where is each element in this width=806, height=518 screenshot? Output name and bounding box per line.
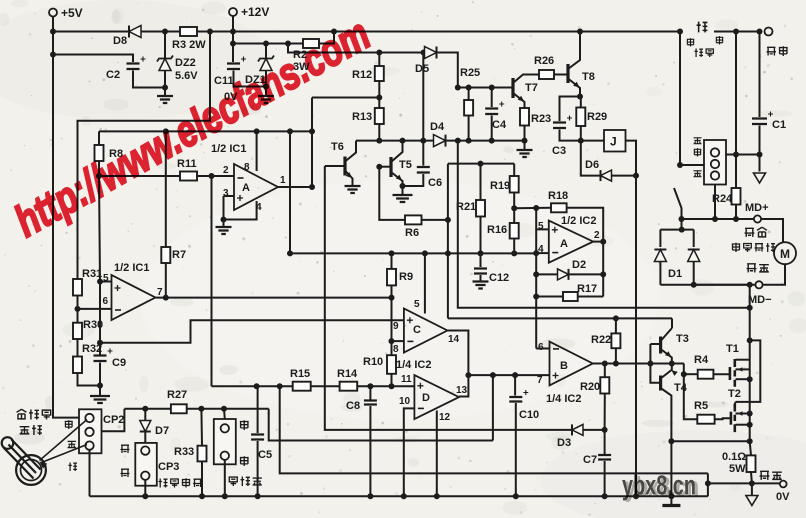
zener DZ1 bbox=[265, 44, 267, 59]
capacitor C4 bbox=[491, 88, 493, 108]
wire pin8 bbox=[256, 131, 258, 171]
wire R5 drop bbox=[684, 374, 698, 419]
wire x636 long column bbox=[635, 176, 637, 497]
svg-text:C1: C1 bbox=[772, 119, 786, 131]
wire 0V line bbox=[708, 482, 780, 484]
wire emitter to C3 bbox=[560, 97, 581, 122]
label cuhong bbox=[767, 47, 776, 55]
ground DZ1 bbox=[258, 96, 274, 103]
resistor R29 bbox=[580, 97, 582, 108]
resistor R2 bbox=[303, 39, 319, 48]
diode D6 bbox=[601, 170, 612, 181]
node bus x290 bbox=[287, 250, 293, 256]
wire R14 to pin11 bbox=[357, 385, 414, 387]
node pin2 out bbox=[600, 239, 606, 245]
svg-text:5W: 5W bbox=[729, 463, 746, 475]
resistor R14 bbox=[340, 382, 358, 391]
node R33 top bbox=[198, 406, 204, 412]
node pin6 bbox=[75, 306, 81, 312]
node DZ2 bottom bbox=[162, 85, 168, 91]
resistor R9 bbox=[387, 269, 396, 286]
svg-text:13: 13 bbox=[456, 385, 468, 396]
node bus R21 bbox=[478, 250, 484, 256]
node pin5 bbox=[97, 279, 103, 285]
label youshuadianji bbox=[732, 243, 740, 252]
node rail T8 bbox=[577, 29, 583, 35]
wire pin5 C bbox=[424, 253, 426, 313]
ground IC1A bbox=[223, 220, 225, 228]
diode D4 bbox=[434, 135, 446, 147]
resistor R22 bbox=[615, 318, 617, 333]
svg-text:1/4 IC2: 1/4 IC2 bbox=[396, 359, 431, 371]
wire D4 right bbox=[446, 140, 526, 142]
ground T4 chain bbox=[662, 504, 680, 507]
wire shunt bottom bbox=[750, 472, 753, 483]
node DZ1 bottom bbox=[263, 84, 269, 90]
svg-text:9: 9 bbox=[393, 321, 399, 332]
node x233 y43 bbox=[230, 41, 236, 47]
svg-text:J: J bbox=[610, 135, 617, 149]
wire C5 column bbox=[257, 386, 259, 433]
node R17 left bbox=[533, 294, 539, 300]
node C1 top bbox=[757, 29, 763, 35]
svg-text:R14: R14 bbox=[337, 368, 358, 380]
op-amp IC1 B bbox=[112, 275, 156, 320]
diode D2 bbox=[558, 269, 569, 280]
node rail end bbox=[677, 29, 683, 35]
wire to connector bbox=[680, 164, 704, 166]
svg-text:R26: R26 bbox=[534, 55, 554, 67]
node R21 top bbox=[478, 161, 484, 167]
wire fb x493 bbox=[492, 375, 494, 440]
wire C2 bottom bbox=[133, 71, 165, 88]
handlebar sketch bbox=[16, 455, 46, 485]
resistor R16 bbox=[510, 223, 519, 239]
resistor R15 bbox=[293, 382, 311, 391]
wire R32 bottom bbox=[78, 373, 101, 386]
wire C9 bottom bbox=[99, 363, 101, 397]
wire T6 base column bbox=[325, 166, 605, 430]
wire R20 bottom bbox=[604, 394, 606, 430]
wire y473 bus bbox=[280, 386, 708, 473]
node 0V bbox=[749, 480, 755, 486]
svg-text:CP3: CP3 bbox=[158, 461, 179, 473]
wire D1 bottom bbox=[660, 284, 749, 286]
terminal key red bbox=[765, 28, 773, 36]
pointer line 1 bbox=[40, 420, 88, 461]
node x312 output bbox=[309, 184, 315, 190]
wire R18 right bbox=[567, 208, 604, 297]
wire MD+ to motor bbox=[761, 219, 783, 243]
svg-text:12: 12 bbox=[439, 412, 451, 423]
wire key column bbox=[679, 32, 681, 166]
capacitor C11 bbox=[232, 44, 234, 63]
wire D1 left leg bbox=[659, 230, 661, 285]
capacitor C10 bbox=[514, 375, 516, 395]
svg-text:R29: R29 bbox=[587, 111, 607, 123]
label hei1 bbox=[694, 138, 702, 144]
node x736 y154 bbox=[733, 152, 739, 158]
svg-text:R27: R27 bbox=[167, 389, 187, 401]
transistor T4 bbox=[659, 376, 662, 391]
wire pin4 bbox=[224, 201, 257, 220]
svg-text:A: A bbox=[242, 182, 250, 194]
wire R15-R14 bbox=[311, 385, 340, 387]
wire CP3 bottom bbox=[144, 480, 146, 496]
svg-text:R20: R20 bbox=[580, 381, 600, 393]
svg-text:CP2: CP2 bbox=[103, 414, 124, 426]
wire D8 to node bbox=[141, 31, 180, 33]
wire pin3 bbox=[224, 195, 235, 197]
svg-text:M: M bbox=[780, 247, 790, 261]
connector key 3pin bbox=[704, 140, 726, 185]
resistor R18 bbox=[551, 203, 567, 212]
label huang1 bbox=[121, 445, 130, 453]
node C8 bus bbox=[367, 493, 373, 499]
node R25 bottom bbox=[466, 138, 472, 144]
node C1 gnd bbox=[757, 152, 763, 158]
wire drop to D5 line bbox=[288, 44, 424, 53]
wire box top y163 bbox=[448, 163, 514, 165]
svg-text:R13: R13 bbox=[352, 111, 372, 123]
wire fb column x536 bbox=[535, 208, 537, 349]
wire R26 to T8 bbox=[554, 74, 568, 76]
svg-text:T6: T6 bbox=[331, 141, 344, 153]
node R3/DZ2 bbox=[162, 29, 168, 35]
label hei2 bbox=[694, 171, 702, 177]
wire connector to C1 node bbox=[726, 154, 760, 156]
label hong3 bbox=[694, 148, 702, 156]
svg-text:1: 1 bbox=[280, 175, 286, 186]
node C10 bus bbox=[513, 493, 519, 499]
svg-text:C5: C5 bbox=[258, 449, 272, 461]
node left rail C2 bbox=[50, 52, 56, 58]
wire C3 bottom to J bbox=[560, 130, 605, 141]
node rail x210 bbox=[207, 29, 213, 35]
svg-text:D5: D5 bbox=[415, 63, 429, 75]
node MD+ blade bbox=[679, 216, 685, 222]
wire pin4 stub bbox=[536, 252, 549, 254]
connector CP2 bbox=[79, 409, 102, 453]
node R10 bus bbox=[389, 383, 395, 389]
wire R9 bottom bbox=[391, 285, 393, 355]
node D1 top bbox=[679, 227, 685, 233]
node fb drop bbox=[490, 372, 496, 378]
terminal MD- bbox=[755, 281, 762, 288]
svg-text:T1: T1 bbox=[726, 343, 739, 355]
label brake cutoff bbox=[159, 479, 168, 488]
resistor R3 bbox=[180, 27, 197, 36]
node MD- drop bbox=[747, 282, 753, 288]
svg-text:R5: R5 bbox=[694, 400, 708, 412]
earth C1 bbox=[754, 173, 766, 183]
resistor R26 bbox=[539, 70, 554, 79]
svg-text:1/2 IC1: 1/2 IC1 bbox=[211, 143, 246, 155]
label hong1 bbox=[687, 38, 695, 46]
wire C out bbox=[447, 331, 468, 397]
terminal +5V bbox=[49, 9, 57, 17]
svg-text:T4: T4 bbox=[674, 382, 688, 394]
wire +12V to R2 bbox=[233, 43, 303, 45]
ground C12 bbox=[473, 282, 489, 289]
wire x736 column bbox=[735, 32, 737, 189]
svg-text:D1: D1 bbox=[668, 268, 682, 280]
wire J right to D6 node bbox=[626, 141, 637, 176]
label cuhei bbox=[760, 471, 770, 480]
node D5 left bbox=[421, 50, 427, 56]
wire limiter bottom bbox=[224, 460, 226, 496]
svg-text:0V: 0V bbox=[776, 491, 790, 503]
wire pin6 stub bbox=[536, 348, 549, 350]
resistor R24 bbox=[732, 188, 741, 205]
wire D7 bottom bbox=[144, 433, 146, 446]
wire y131 line bbox=[99, 130, 312, 132]
wire D1 feed bbox=[681, 219, 683, 230]
svg-text:C2: C2 bbox=[106, 69, 120, 81]
node T4 bus bbox=[668, 493, 674, 499]
svg-text:C: C bbox=[413, 324, 421, 336]
svg-text:1/2 IC2: 1/2 IC2 bbox=[561, 215, 596, 227]
wire R31 bottom bbox=[77, 296, 79, 323]
node bus x448 bbox=[445, 250, 451, 256]
svg-text:C9: C9 bbox=[112, 357, 126, 369]
svg-text:7: 7 bbox=[157, 287, 163, 298]
svg-text:D3: D3 bbox=[557, 437, 571, 449]
resistor R17 bbox=[563, 292, 578, 301]
diode D8 bbox=[129, 26, 141, 38]
node R12 top bbox=[376, 50, 382, 56]
svg-text:R33: R33 bbox=[174, 446, 194, 458]
wire R10 bottom bbox=[391, 374, 393, 386]
resistor R23 bbox=[520, 108, 529, 126]
wire pin8 stub bbox=[392, 340, 404, 342]
wire C12 bottom bbox=[480, 275, 482, 281]
diode D3 bbox=[572, 424, 583, 435]
motor M bbox=[774, 242, 796, 264]
svg-text:7: 7 bbox=[537, 375, 543, 386]
diode D7 bbox=[144, 409, 146, 420]
wire tap to x312 bbox=[312, 97, 379, 99]
node x636 bus bbox=[633, 493, 639, 499]
svg-text:2: 2 bbox=[223, 165, 229, 176]
node CP3 bus bbox=[142, 493, 148, 499]
ground C9 bbox=[90, 396, 110, 403]
resistor R6 bbox=[405, 215, 422, 224]
wire motor to MD- bbox=[763, 264, 786, 285]
wire R16 bottom bbox=[513, 239, 515, 254]
wire CP2 pin3 down bbox=[89, 450, 91, 497]
node R24 MD bbox=[733, 216, 739, 222]
svg-text:C4: C4 bbox=[492, 119, 507, 131]
ground T6 bbox=[345, 186, 361, 193]
node D2 left bbox=[533, 271, 539, 277]
wire T4 to bus gnd bbox=[670, 441, 672, 504]
svg-text:R17: R17 bbox=[577, 283, 597, 295]
node R22 bottom bbox=[613, 361, 619, 367]
wire R6 right bbox=[422, 219, 448, 221]
svg-text:R4: R4 bbox=[694, 354, 709, 366]
svg-text:R16: R16 bbox=[487, 224, 507, 236]
resistor R4 bbox=[698, 370, 714, 379]
node bus R16 bbox=[511, 250, 517, 256]
node pin4 bus bbox=[533, 250, 539, 256]
resistor R12 bbox=[378, 53, 380, 67]
node D6 right bbox=[633, 173, 639, 179]
node C5 bus bbox=[255, 493, 261, 499]
svg-text:5: 5 bbox=[414, 299, 420, 310]
svg-text:C7: C7 bbox=[583, 454, 597, 466]
svg-text:R3 2W: R3 2W bbox=[172, 39, 206, 51]
transistor T5 bbox=[379, 166, 391, 168]
op-amp IC2 C bbox=[404, 309, 448, 353]
node R29 bottom bbox=[578, 138, 584, 144]
svg-text:R9: R9 bbox=[399, 271, 413, 283]
wire emitter node bbox=[672, 363, 684, 365]
wire T5 base column to R6 bbox=[379, 167, 405, 220]
svg-text:C10: C10 bbox=[519, 409, 539, 421]
wire B out bbox=[593, 363, 684, 365]
capacitor C12 bbox=[474, 269, 487, 274]
wire R21 bottom bbox=[480, 217, 482, 268]
resistor R32 bbox=[73, 357, 82, 374]
svg-text:8: 8 bbox=[244, 162, 250, 173]
node T2 mid bbox=[747, 411, 753, 417]
wire D5 drop to D4 node bbox=[422, 53, 424, 141]
wire box feed bbox=[78, 32, 211, 280]
wire D5 to x457 bbox=[437, 53, 458, 88]
label jie bbox=[697, 22, 708, 33]
svg-text:R6: R6 bbox=[405, 227, 419, 239]
svg-text:1/2 IC1: 1/2 IC1 bbox=[114, 262, 149, 274]
label qing wire bbox=[68, 441, 76, 447]
wire MD- column bbox=[749, 285, 751, 442]
node T8 emitter bbox=[577, 94, 583, 100]
node source rail bbox=[747, 438, 753, 444]
diode D1b bbox=[686, 247, 701, 259]
node R25 top bbox=[466, 85, 472, 91]
svg-text:C6: C6 bbox=[428, 177, 442, 189]
wire +12V drop bbox=[232, 16, 234, 44]
resistor R shunt 0.1 bbox=[750, 441, 751, 455]
svg-text:R23: R23 bbox=[531, 113, 551, 125]
svg-text:8: 8 bbox=[393, 344, 399, 355]
svg-text:R15: R15 bbox=[290, 368, 310, 380]
wire R4 line bbox=[684, 373, 698, 375]
wire T3 T4 base column bbox=[650, 343, 660, 345]
wire D6 left loop bbox=[581, 141, 600, 176]
transistor T3 bbox=[671, 318, 673, 328]
svg-text:D7: D7 bbox=[155, 425, 169, 437]
node D3 R20 bbox=[602, 427, 608, 433]
wire y408 line bbox=[124, 408, 268, 410]
node R13 bottom bbox=[376, 138, 382, 144]
transistor T8 bbox=[566, 64, 569, 83]
node base drive bbox=[647, 361, 653, 367]
node C5 top bbox=[254, 383, 260, 389]
wire R15 R14 bus bbox=[212, 385, 293, 387]
wire R4 to T1 gate bbox=[713, 373, 730, 375]
wire D6 to node bbox=[612, 175, 637, 177]
node R6/x448 bbox=[445, 217, 451, 223]
node pin2 bbox=[209, 173, 215, 179]
wire +5V drop bbox=[52, 17, 54, 32]
wire left rail bbox=[53, 32, 79, 418]
node R32 join bbox=[97, 383, 103, 389]
label lan1 bbox=[240, 420, 249, 430]
svg-text:ybx8.cn: ybx8.cn bbox=[622, 470, 696, 501]
terminal MD+ bbox=[754, 215, 761, 222]
svg-text:D6: D6 bbox=[585, 159, 599, 171]
node pin12 bus bbox=[434, 493, 440, 499]
svg-text:0.1Ω: 0.1Ω bbox=[722, 451, 746, 463]
svg-text:C12: C12 bbox=[489, 272, 509, 284]
terminal 0V bbox=[780, 481, 787, 488]
wire x212 column bbox=[211, 176, 213, 386]
ground T5 bbox=[393, 195, 413, 202]
svg-text:MD+: MD+ bbox=[745, 202, 769, 214]
svg-text:14: 14 bbox=[448, 334, 460, 345]
node T1 source bbox=[747, 376, 753, 382]
wire C1 bottom bbox=[759, 126, 761, 172]
wire base line y87 bbox=[458, 87, 513, 89]
node D2 right bbox=[600, 271, 606, 277]
mosfet T1 bbox=[729, 367, 732, 380]
capacitor C2 bbox=[127, 64, 140, 70]
resistor R25 bbox=[468, 88, 470, 101]
node R9 top bbox=[389, 250, 395, 256]
transistor T7 bbox=[511, 78, 514, 98]
svg-text:R10: R10 bbox=[363, 356, 383, 368]
svg-text:R21: R21 bbox=[456, 201, 476, 213]
pointer line 2 bbox=[42, 445, 88, 463]
label hong2 bbox=[716, 36, 724, 44]
node C7 bus bbox=[602, 493, 608, 499]
svg-text:A: A bbox=[560, 238, 568, 250]
wire rail to terminal bbox=[731, 31, 762, 33]
op-amp IC2 B bbox=[550, 342, 593, 386]
resistor R10 bbox=[387, 355, 396, 374]
diode D5 bbox=[424, 52, 427, 54]
wire R17 right bbox=[578, 296, 604, 298]
node gate node bbox=[681, 371, 687, 377]
svg-text:R19: R19 bbox=[490, 180, 510, 192]
node +5V rail bbox=[50, 29, 56, 35]
svg-text:D2: D2 bbox=[572, 259, 586, 271]
wire R22 bottom bbox=[615, 348, 617, 363]
wire R2 out bbox=[319, 32, 334, 44]
svg-text:6: 6 bbox=[103, 296, 109, 307]
terminal +12V bbox=[229, 8, 237, 16]
svg-text:D4: D4 bbox=[430, 121, 445, 133]
wire 0V riser bbox=[707, 473, 709, 496]
wire out bus to B+ bbox=[468, 374, 549, 376]
node D7 top bbox=[142, 406, 148, 412]
resistor R8 bbox=[98, 131, 100, 145]
node limiter bus bbox=[222, 493, 228, 499]
wire D1 top bbox=[660, 229, 693, 231]
wire x312 column bbox=[311, 98, 313, 188]
zener DZ2 bbox=[164, 32, 166, 59]
ground DZ2 bbox=[157, 96, 173, 103]
label cuhuang bbox=[745, 228, 755, 237]
node R18 left col bbox=[533, 205, 539, 211]
wire R24 bottom bbox=[735, 205, 737, 220]
wire R33 bottom bbox=[201, 461, 203, 496]
svg-text:DZ2: DZ2 bbox=[175, 57, 196, 69]
wire C10 bottom bbox=[515, 403, 517, 496]
label hei wire bbox=[68, 462, 77, 471]
svg-text:T2: T2 bbox=[728, 388, 741, 400]
